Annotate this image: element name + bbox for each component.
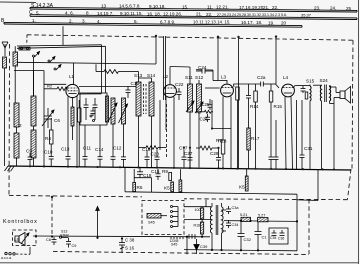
resistor R3 <box>78 108 82 122</box>
svg-text:R9: R9 <box>162 169 168 174</box>
svg-text:4. 6.: 4. 6. <box>65 11 74 16</box>
resistor K5 <box>171 182 174 192</box>
grid leak parts <box>301 86 308 99</box>
wire: B+ riser <box>296 194 298 251</box>
svg-text:C35: C35 <box>270 236 276 240</box>
svg-text:C13: C13 <box>61 147 70 152</box>
switch contacts mid <box>90 115 92 117</box>
svg-text:C 38: C 38 <box>125 238 135 243</box>
svg-text:C24: C24 <box>198 65 207 70</box>
connector contacts in control line <box>189 234 195 239</box>
resistor R9 <box>169 173 172 181</box>
capacitor C5 <box>91 108 96 116</box>
svg-text:5.21: 5.21 <box>240 213 247 217</box>
svg-text:L2: L2 <box>163 74 169 79</box>
resistor R15 <box>269 91 273 102</box>
wire: switch feeder horizontals top-left <box>17 45 102 46</box>
oscillator coil S8 <box>122 98 126 124</box>
svg-text:R7: R7 <box>216 138 222 143</box>
IF transformer coil S14 <box>149 82 154 116</box>
svg-text:R2: R2 <box>47 84 53 89</box>
svg-text:22.: 22. <box>272 5 278 10</box>
wire: L4 cathode chain <box>296 100 298 169</box>
resistor R13 <box>196 146 218 150</box>
filter choke S21 <box>241 217 251 221</box>
svg-text:R14: R14 <box>250 104 259 109</box>
svg-text:S.14.2.3A: S.14.2.3A <box>31 3 54 9</box>
ground bus (chassis earth rail) <box>8 166 351 170</box>
svg-text:1.: 1. <box>32 18 36 23</box>
svg-text:16.17.: 16.17. <box>241 20 254 25</box>
wire: L3 plate run <box>234 83 261 85</box>
selector contacts <box>171 206 179 228</box>
capacitor C20 <box>155 150 160 167</box>
oscillator coil S2 <box>14 133 19 158</box>
svg-text:10.11.12.13.14. 15.: 10.11.12.13.14. 15. <box>193 20 231 25</box>
wire: heater feed vertical <box>205 200 207 207</box>
resistor R4 <box>50 130 54 144</box>
wire: L3 leads <box>222 97 224 141</box>
electrolytic block C35 C36 <box>269 228 288 244</box>
wire: AVC corner <box>211 100 213 129</box>
svg-text:15.: 15. <box>182 4 188 9</box>
capacitor C15b <box>269 157 274 169</box>
svg-text:C32: C32 <box>244 237 252 242</box>
svg-text:C2a: C2a <box>257 75 266 80</box>
svg-text:22.: 22. <box>206 12 212 17</box>
wire: vertical drops of feeder nest <box>62 26 64 45</box>
sub-chassis heater box left vertical <box>124 167 126 192</box>
wire: B+ line <box>224 220 241 222</box>
svg-text:C36: C36 <box>278 237 284 241</box>
cable loom bus B (third row) <box>4 22 302 27</box>
resistor R16 <box>201 222 204 234</box>
svg-text:27.29.23.24.25.28.30.31.32.33.: 27.29.23.24.25.28.30.31.32.33.1.34.2.3 5… <box>217 13 287 17</box>
psu junction dots <box>51 220 298 252</box>
capacitor C16 <box>126 86 131 98</box>
svg-text:R15: R15 <box>274 104 283 109</box>
chassis dashed border left <box>8 44 11 197</box>
svg-text:5.27: 5.27 <box>258 213 265 217</box>
capacitor C10 <box>49 153 54 167</box>
svg-text:C1: C1 <box>262 235 268 240</box>
svg-text:21.: 21. <box>196 12 202 17</box>
svg-text:13: 13 <box>101 4 107 9</box>
svg-text:16. 18.: 16. 18. <box>147 11 161 16</box>
switch S16 <box>120 247 124 253</box>
IF2 trimmer arrows <box>186 101 203 113</box>
wire: psu top run <box>184 206 211 208</box>
terminal bar <box>19 47 30 50</box>
resistor 100 <box>201 208 204 219</box>
svg-text:C25: C25 <box>201 102 210 107</box>
svg-text:L3: L3 <box>221 75 227 80</box>
svg-text:C20: C20 <box>151 152 160 157</box>
driver coil S15 <box>310 85 311 169</box>
oscillator coil S1 <box>14 103 19 127</box>
capacitor C25 <box>208 99 213 110</box>
wire: L4 leads <box>285 97 286 169</box>
coupling capacitor C2a <box>261 82 264 87</box>
svg-text:C16: C16 <box>131 81 140 86</box>
capacitor C22 <box>177 88 182 100</box>
wire: loom drop x=273.75 <box>275 37 277 84</box>
svg-text:C31: C31 <box>304 146 313 151</box>
capacitor C38 <box>119 240 125 248</box>
svg-text:C17: C17 <box>179 146 188 151</box>
svg-text:S45: S45 <box>148 221 155 225</box>
capacitor C14 <box>98 125 103 167</box>
svg-text:C6: C6 <box>54 118 60 123</box>
svg-text:C27: C27 <box>184 151 193 156</box>
svg-text:9.10.18.: 9.10.18. <box>149 4 166 9</box>
antenna coupling coil <box>3 57 7 166</box>
wire: L4 grid rise <box>276 84 280 88</box>
resistor R10 <box>139 146 167 150</box>
oscillator coil S3 <box>31 96 36 126</box>
svg-text:18.: 18. <box>256 20 262 25</box>
svg-text:LS: LS <box>14 237 19 242</box>
svg-text:S24: S24 <box>320 78 329 83</box>
resistor R14 <box>254 91 257 102</box>
IF1 core <box>143 84 145 114</box>
svg-text:6.7.8.9.: 6.7.8.9. <box>160 19 175 24</box>
oscillator coil S7 <box>111 98 115 124</box>
IF transformer coil S11 <box>188 84 193 112</box>
svg-text:100: 100 <box>195 208 201 212</box>
aerial coil upper <box>13 52 18 66</box>
wire: loom drop x=220.5 <box>217 37 219 81</box>
capacitor C24 <box>196 69 213 74</box>
svg-text:11.: 11. <box>207 5 213 10</box>
capacitor C15c <box>274 120 279 169</box>
pickup arrow <box>96 207 100 239</box>
svg-text:C9: C9 <box>26 149 32 154</box>
svg-text:25: 25 <box>346 6 352 11</box>
wire: L2 plate top run <box>170 66 190 69</box>
svg-text:C8: C8 <box>46 238 51 242</box>
svg-text:5.: 5. <box>134 19 138 24</box>
svg-text:24.: 24. <box>330 6 336 11</box>
wire: AVC vertical <box>159 100 161 150</box>
svg-text:S12: S12 <box>195 75 204 80</box>
page edge top-left remnant <box>0 1 36 3</box>
svg-text:C29: C29 <box>210 151 219 156</box>
mains selector dashed box <box>142 201 184 235</box>
chassis dashed border right <box>352 40 353 168</box>
capacitor C12 <box>111 124 116 167</box>
audio output tube L4 <box>282 84 295 97</box>
svg-text:23.: 23. <box>314 6 320 11</box>
padder box <box>80 93 107 125</box>
svg-text:S11: S11 <box>185 75 193 80</box>
svg-text:17.16.19.20.: 17.16.19.20. <box>239 5 265 10</box>
svg-text:14.5.6.7.8.: 14.5.6.7.8. <box>119 4 141 9</box>
wire: switch row horizontals <box>14 70 44 72</box>
wire: psu tap run <box>184 219 211 221</box>
capacitor C17 <box>182 150 187 167</box>
svg-text:9.10.11.15,: 9.10.11.15, <box>120 11 143 16</box>
filter choke S27 <box>258 218 269 222</box>
wire: drop to bottom border <box>186 237 188 255</box>
antenna <box>2 42 8 56</box>
svg-text:K5: K5 <box>164 186 170 191</box>
svg-text:5.: 5. <box>36 10 40 15</box>
capacitor C29 <box>216 148 221 168</box>
wire: loom drop x=160 <box>155 36 157 64</box>
IF amplifier tube L2 <box>164 67 177 98</box>
svg-text:L4: L4 <box>283 75 289 80</box>
capacitor C27 <box>188 148 193 168</box>
output tube of IF, L3 <box>221 80 234 97</box>
AVC dashed line <box>166 104 168 158</box>
svg-text:a.c.c.a.: a.c.c.a. <box>1 256 12 260</box>
svg-text:21.: 21. <box>263 5 269 10</box>
resistor R5 <box>133 183 136 192</box>
svg-text:C12: C12 <box>113 146 122 151</box>
svg-text:R4: R4 <box>45 136 51 141</box>
output transformer S24 <box>320 85 334 170</box>
svg-text:S13: S13 <box>134 73 143 78</box>
wire: loom drop x=237.5 <box>238 37 240 169</box>
capacitor C7 <box>84 98 89 120</box>
wire: L1 electrode leads <box>67 97 69 149</box>
svg-text:C14: C14 <box>95 147 104 152</box>
resistor R1 <box>106 96 109 122</box>
svg-text:C10: C10 <box>44 150 53 155</box>
wire: L4 plate to output transformer <box>295 85 311 87</box>
Kontrolbox dashed enclosure <box>13 230 37 246</box>
tap ticks 1-5 <box>171 237 183 240</box>
svg-text:R17: R17 <box>251 136 260 141</box>
svg-text:C39: C39 <box>200 244 208 249</box>
resistor K5b <box>179 180 182 192</box>
resistor R17 <box>247 128 251 150</box>
svg-text:S 16: S 16 <box>125 246 135 251</box>
svg-text:S14: S14 <box>147 73 156 78</box>
psu bottom line <box>184 250 297 251</box>
capacitor C13 <box>66 148 71 167</box>
resistor R6 <box>202 110 213 113</box>
resistor R7 <box>221 140 225 154</box>
svg-text:35,37: 35,37 <box>301 12 312 17</box>
mains transformer <box>210 203 226 250</box>
resistor R2 <box>44 87 102 94</box>
band switch contacts <box>33 52 62 71</box>
IF transformer coil S13 <box>136 82 141 116</box>
selector coil S45 <box>147 214 167 219</box>
bottom dashed border <box>53 252 309 255</box>
capacitor C11 <box>83 125 88 167</box>
capacitor C26 <box>205 114 210 122</box>
control loudspeaker LS <box>15 233 29 246</box>
svg-text:C: C <box>29 10 33 16</box>
svg-text:R5: R5 <box>137 185 143 190</box>
svg-text:S45: S45 <box>171 243 177 247</box>
capacitor C34 <box>226 220 231 228</box>
svg-text:2: 2 <box>19 123 22 128</box>
svg-text:12.19.26.: 12.19.26. <box>163 11 182 16</box>
svg-text:8: 8 <box>86 11 89 16</box>
loudspeaker <box>330 87 351 104</box>
resistor R12 <box>236 87 240 100</box>
switch S13k <box>60 236 69 238</box>
capacitor C32 <box>238 222 245 251</box>
capacitor C8k <box>52 237 57 245</box>
cable loom bus C (second row) <box>30 15 357 20</box>
capacitor C8 <box>93 98 98 120</box>
svg-text:C34: C34 <box>232 223 239 227</box>
mains plug bottom left <box>5 247 30 255</box>
svg-text:20: 20 <box>281 20 287 25</box>
capacitor C3a <box>226 206 231 214</box>
svg-text:19.: 19. <box>268 20 274 25</box>
capacitor C1 <box>255 222 262 251</box>
IF transformer coil S12 <box>197 84 202 112</box>
capacitor C31 <box>300 100 305 169</box>
text labels <box>1 3 352 26</box>
svg-text:R16: R16 <box>194 224 201 228</box>
svg-text:C22: C22 <box>175 82 184 87</box>
svg-text:S15: S15 <box>306 79 315 84</box>
variable capacitor C6 <box>42 108 54 128</box>
chassis dashed border top <box>27 35 353 40</box>
oscillator coil S4 <box>31 130 36 158</box>
capacitor C13c <box>246 84 251 128</box>
resistor R1b <box>96 64 139 78</box>
cable loom bus A (top row) <box>30 7 357 12</box>
svg-text:14.15 7.: 14.15 7. <box>97 11 114 16</box>
control cable dashed drop <box>51 197 53 237</box>
svg-text:C9: C9 <box>72 244 77 248</box>
heater return line <box>125 192 297 194</box>
capacitor C9k <box>66 238 71 248</box>
svg-text:12.21.: 12.21. <box>216 5 229 10</box>
svg-text:2.: 2. <box>69 19 73 24</box>
triode-hexode L1 <box>66 63 79 98</box>
capacitor C18 <box>134 167 152 192</box>
svg-text:Kontrolbox: Kontrolbox <box>3 219 38 225</box>
capacitor C19 <box>145 150 150 167</box>
svg-text:C15: C15 <box>151 169 160 174</box>
wire: L2 leads <box>165 97 167 130</box>
page edge bottom <box>0 262 358 264</box>
svg-text:4.: 4. <box>97 19 101 24</box>
svg-text:3.: 3. <box>82 19 86 24</box>
svg-text:C3a: C3a <box>232 206 240 210</box>
wire: L1 plate to IF1 <box>79 86 136 88</box>
trimmer arrows over coils <box>108 103 128 123</box>
svg-text:K5: K5 <box>239 185 245 190</box>
capacitor C13b <box>121 124 126 167</box>
capacitor C9 <box>28 153 33 166</box>
control line wire <box>33 235 210 238</box>
svg-text:STER: STER <box>60 234 69 238</box>
svg-text:R6: R6 <box>196 110 202 115</box>
junction dots on ground bus <box>29 35 335 238</box>
svg-text:L1: L1 <box>69 74 74 79</box>
svg-text:C11: C11 <box>83 146 92 151</box>
capacitor C15 <box>156 169 161 180</box>
page edge right <box>358 0 360 264</box>
ground symbol left end <box>5 166 15 171</box>
svg-text:C26: C26 <box>200 117 209 122</box>
chassis dashed notch right <box>184 198 348 201</box>
resistor K5c <box>245 176 248 191</box>
electrolytic C39 <box>194 239 199 254</box>
chassis dashed border bottom-left run <box>9 196 142 197</box>
